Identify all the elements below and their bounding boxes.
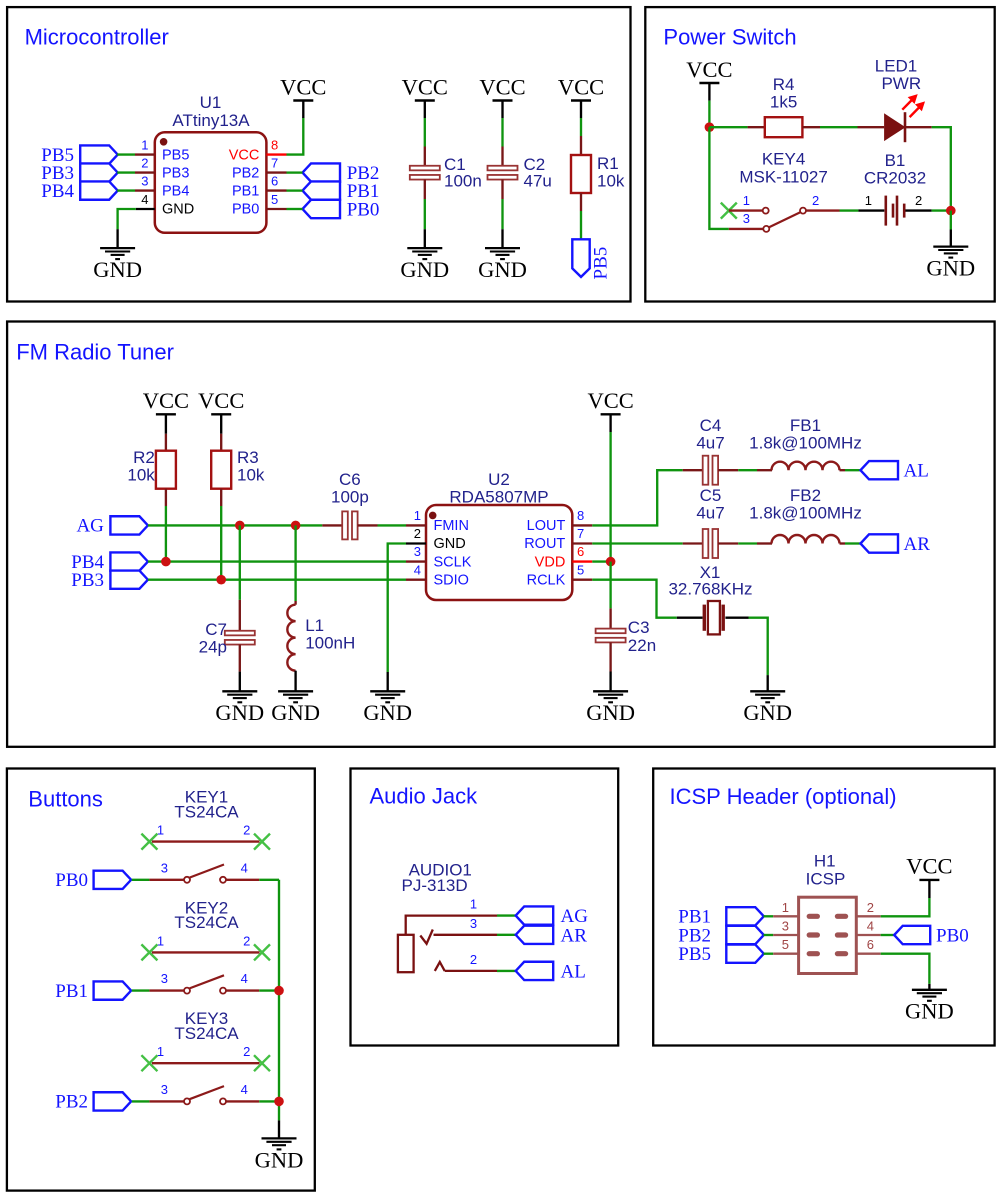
pins 1-2 KEY3 <box>152 1062 260 1064</box>
wire RCLK to crystal X1 <box>592 580 677 618</box>
wire junction to R4 <box>709 126 747 128</box>
ferrite bead FB1 1.8k@100MHz <box>757 469 772 471</box>
wire VCC to C1 <box>424 118 426 147</box>
svg-text:8: 8 <box>271 137 278 152</box>
pin 1 U2 FMIN <box>406 524 426 526</box>
svg-text:R1: R1 <box>597 154 619 173</box>
pin 6 U2 VDD <box>572 560 592 562</box>
svg-text:1.8k@100MHz: 1.8k@100MHz <box>749 434 862 453</box>
wire pin2 to AL port <box>497 970 516 972</box>
svg-text:1: 1 <box>743 193 750 208</box>
svg-text:LED1: LED1 <box>875 57 918 76</box>
wire pin7 to PB2 port <box>287 171 303 173</box>
svg-text:32.768KHz: 32.768KHz <box>668 579 752 598</box>
wire ROUT to C5 <box>592 542 682 544</box>
svg-text:GND: GND <box>162 202 194 218</box>
ground in Power Switch <box>950 230 952 247</box>
wire PB3 port to pin2 <box>117 171 135 173</box>
svg-text:SDIO: SDIO <box>434 572 469 588</box>
wire C6 to pin1 <box>378 524 407 526</box>
svg-text:AR: AR <box>904 534 931 555</box>
wire buttons right rail <box>278 880 280 1121</box>
pin 5 H1 <box>764 953 774 955</box>
svg-text:CR2032: CR2032 <box>864 169 926 188</box>
wire KEY3 pin4 to rail <box>259 1100 279 1102</box>
svg-text:100nH: 100nH <box>305 634 355 653</box>
svg-text:FB1: FB1 <box>790 416 821 435</box>
no-connect X KEY3 pin2 <box>254 1055 270 1071</box>
svg-text:PB4: PB4 <box>41 181 74 202</box>
port AG to tuner <box>516 906 554 924</box>
ferrite bead FB2 1.8k@100MHz <box>757 542 772 544</box>
pin 6 H1 to ground <box>857 953 881 955</box>
pin 7 U2 ROUT <box>572 542 592 544</box>
ground under C2 <box>501 229 503 248</box>
svg-text:SCLK: SCLK <box>434 554 472 570</box>
switch lever KEY1 <box>190 865 225 878</box>
svg-text:PJ-313D: PJ-313D <box>402 876 468 895</box>
svg-text:PB5: PB5 <box>678 944 711 965</box>
svg-text:1: 1 <box>157 933 164 948</box>
resistor R4 1k5 <box>748 126 765 128</box>
svg-text:2: 2 <box>414 526 421 541</box>
wire VDD pin to junction <box>592 560 610 562</box>
port PB2 <box>94 1092 132 1110</box>
wire VCC down to VDD junction <box>609 432 611 562</box>
section box Microcontroller <box>7 7 630 301</box>
pin 3 U1 PB4 <box>135 189 155 191</box>
node junction KEY3 pin4 <box>274 1097 284 1107</box>
svg-text:PB3: PB3 <box>71 570 104 591</box>
switch lever KEY2 <box>190 975 225 988</box>
wire LOUT up to C4 row <box>592 470 682 525</box>
pin 3 KEY4 <box>729 228 763 230</box>
pin 1 KEY4 <box>729 209 763 211</box>
svg-text:VCC: VCC <box>906 854 952 879</box>
no-connect X KEY2 pin2 <box>254 944 270 960</box>
wire PB2 port to KEY3 pin3 <box>132 1100 150 1102</box>
svg-text:6: 6 <box>577 544 584 559</box>
svg-text:3: 3 <box>414 544 421 559</box>
inductor L1 100nH <box>294 601 296 605</box>
ground under U1 <box>116 229 118 248</box>
svg-text:2: 2 <box>470 952 477 967</box>
pin 1 U1 PB5 <box>135 153 155 155</box>
svg-text:10k: 10k <box>127 466 155 485</box>
svg-text:5: 5 <box>577 562 584 577</box>
svg-text:GND: GND <box>905 999 954 1024</box>
svg-text:6: 6 <box>867 937 874 952</box>
svg-text:U2: U2 <box>488 470 510 489</box>
svg-text:4: 4 <box>241 860 248 875</box>
svg-text:C6: C6 <box>339 470 361 489</box>
pin 7 U1 PB2 <box>266 171 286 173</box>
pin 8 U1 VCC <box>266 153 286 155</box>
pin 4 KEY2 <box>220 988 226 994</box>
capacitor C5 4u7 <box>683 542 703 544</box>
svg-text:22n: 22n <box>628 636 656 655</box>
wire C2 to ground <box>501 199 503 229</box>
svg-text:3: 3 <box>161 1082 168 1097</box>
pin 2 U1 PB3 <box>135 171 155 173</box>
svg-text:47u: 47u <box>524 172 552 191</box>
svg-text:VCC: VCC <box>479 74 525 99</box>
wire KEY1 pin4 to rail <box>259 879 279 881</box>
svg-text:LOUT: LOUT <box>527 518 566 534</box>
wire R1 to PB5 port <box>580 211 582 239</box>
pin 4 KEY1 <box>220 877 226 883</box>
wire R3 to SDIO line <box>220 506 222 580</box>
svg-text:R2: R2 <box>133 448 155 467</box>
svg-text:U1: U1 <box>200 93 222 112</box>
svg-text:ATtiny13A: ATtiny13A <box>172 111 250 130</box>
svg-text:2: 2 <box>141 155 148 170</box>
pin 4 KEY3 <box>220 1098 226 1104</box>
svg-text:AL: AL <box>904 461 929 482</box>
op-amp U2 body RDA5807MP <box>426 505 572 600</box>
wire FB2 to AR port <box>845 542 861 544</box>
svg-text:2: 2 <box>243 823 250 838</box>
port PB5 below R1 <box>572 239 589 277</box>
ground right of X1 <box>767 675 769 691</box>
svg-text:MSK-11027: MSK-11027 <box>739 167 828 186</box>
svg-text:ICSP Header (optional): ICSP Header (optional) <box>670 784 897 809</box>
wire U1 pin8 to VCC <box>287 118 304 155</box>
svg-text:4: 4 <box>241 971 248 986</box>
svg-text:PB3: PB3 <box>162 165 189 181</box>
pin 4 U1 GND <box>136 208 155 210</box>
wire U1 pin4 to ground <box>118 209 136 229</box>
pin 4 H1 to PB0 <box>857 934 881 936</box>
svg-text:C3: C3 <box>628 618 650 637</box>
ground under buttons <box>278 1120 280 1138</box>
wire junction down to C3 <box>609 562 611 609</box>
LED LED1 PWR <box>858 126 885 128</box>
svg-text:100n: 100n <box>444 172 482 191</box>
pin 1 H1 <box>764 915 774 917</box>
svg-text:C7: C7 <box>205 620 227 639</box>
section box ICSP Header <box>653 769 994 1046</box>
svg-text:Microcontroller: Microcontroller <box>25 24 169 49</box>
no-connect X KEY3 pin1 <box>141 1055 157 1071</box>
svg-text:L1: L1 <box>305 616 324 635</box>
wire FB1 to AL port <box>845 469 861 471</box>
resistor R1 10k <box>580 136 582 155</box>
port AL audio left out <box>861 461 899 479</box>
svg-text:4: 4 <box>414 562 421 577</box>
power VCC at U1 pin8 <box>302 101 304 119</box>
port PB4 SCLK <box>110 552 147 570</box>
svg-text:PB0: PB0 <box>55 870 88 891</box>
wire PB0 port to KEY1 pin3 <box>132 879 150 881</box>
wire C1 to ground <box>424 199 426 229</box>
capacitor C3 22n <box>609 608 611 628</box>
capacitor C4 4u7 <box>683 469 703 471</box>
svg-text:AL: AL <box>561 962 586 983</box>
capacitor C6 100p <box>322 524 342 526</box>
wire PB4 port to pin3 <box>117 189 135 191</box>
wire C4 to FB1 <box>738 469 757 471</box>
svg-text:VCC: VCC <box>686 57 732 82</box>
svg-text:AG: AG <box>76 516 104 537</box>
section box FM Radio Tuner <box>7 322 995 747</box>
node junction KEY2 pin4 <box>274 986 284 996</box>
svg-text:TS24CA: TS24CA <box>174 1024 239 1043</box>
port PB5 at U1 pin1 <box>80 145 118 163</box>
svg-text:VCC: VCC <box>229 147 260 163</box>
node junction battery/LED/ground <box>946 206 956 216</box>
svg-text:3: 3 <box>161 860 168 875</box>
svg-text:4: 4 <box>241 1082 248 1097</box>
pin 3 AUDIO1 ring contact <box>420 930 433 944</box>
svg-text:VCC: VCC <box>558 74 604 99</box>
svg-text:1: 1 <box>414 508 421 523</box>
pin 2 AUDIO1 tip contact <box>435 962 445 971</box>
wire AG junction down to L1 <box>294 525 296 601</box>
svg-text:2: 2 <box>243 933 250 948</box>
svg-text:PB2: PB2 <box>55 1092 88 1113</box>
pin 3 KEY1 <box>149 879 184 881</box>
svg-text:FM Radio Tuner: FM Radio Tuner <box>16 339 174 364</box>
wire pin1 to AG port <box>497 914 516 916</box>
ground under L1 <box>294 671 296 692</box>
svg-text:2: 2 <box>812 193 819 208</box>
svg-text:Buttons: Buttons <box>28 786 103 811</box>
svg-text:PB5: PB5 <box>591 247 612 280</box>
svg-text:2: 2 <box>243 1044 250 1059</box>
wire PB3 line to pin4 <box>148 579 406 581</box>
wire pin6 to PB1 port <box>287 189 303 191</box>
pin 2 H1 to VCC <box>857 915 881 917</box>
section box Audio Jack <box>351 769 619 1046</box>
port PB0 at U1 pin5 <box>303 200 341 218</box>
wire VCC to R1 <box>580 118 582 136</box>
svg-text:2: 2 <box>867 900 874 915</box>
node junction R2/SCLK <box>161 557 171 567</box>
svg-text:PB0: PB0 <box>936 926 969 947</box>
node junction VCC/R4/switch <box>705 122 715 132</box>
capacitor C2 47u <box>501 147 503 166</box>
no-connect X on KEY4 pin1 <box>721 203 737 219</box>
pin 3 KEY3 <box>149 1100 184 1102</box>
switch lever KEY4 <box>769 212 801 227</box>
svg-text:R4: R4 <box>773 75 795 94</box>
pins 1-2 KEY1 <box>152 840 260 842</box>
wire PB1 port to KEY2 pin3 <box>132 989 150 991</box>
pin 3 H1 <box>764 934 774 936</box>
node junction VDD/C3 <box>606 557 616 567</box>
port PB4 at U1 pin3 <box>80 181 118 199</box>
svg-text:VCC: VCC <box>198 388 244 413</box>
svg-text:PB0: PB0 <box>232 202 259 218</box>
pin 5 U2 RCLK <box>572 579 592 581</box>
wire PB5 port to pin1 <box>117 153 135 155</box>
pin 4 U2 SDIO <box>406 579 426 581</box>
svg-text:RDA5807MP: RDA5807MP <box>449 487 548 506</box>
svg-text:H1: H1 <box>814 851 836 870</box>
svg-text:PB0: PB0 <box>347 199 380 220</box>
svg-text:PWR: PWR <box>881 74 921 93</box>
svg-text:KEY4: KEY4 <box>762 149 805 168</box>
section box Buttons <box>7 769 315 1191</box>
pin 6 U1 PB1 <box>266 189 286 191</box>
pin 3 U2 SCLK <box>406 560 426 562</box>
svg-text:1: 1 <box>865 193 872 208</box>
svg-text:4u7: 4u7 <box>696 434 724 453</box>
svg-text:3: 3 <box>141 173 148 188</box>
svg-text:PB5: PB5 <box>162 147 189 163</box>
port PB5 to H1 pin5 <box>726 945 764 963</box>
switch lever KEY3 <box>190 1086 225 1099</box>
svg-text:2: 2 <box>915 193 922 208</box>
node junction AG/L1 <box>291 521 301 531</box>
wire AG junction down to C7 <box>239 525 241 600</box>
svg-text:3: 3 <box>470 916 477 931</box>
svg-text:VDD: VDD <box>535 554 566 570</box>
wire C5 to FB2 <box>738 542 757 544</box>
wire battery to right rail <box>932 209 951 211</box>
svg-text:Audio Jack: Audio Jack <box>370 783 479 808</box>
svg-text:R3: R3 <box>237 448 259 467</box>
svg-text:3: 3 <box>743 211 750 226</box>
ground at H1 pin6 <box>928 984 930 990</box>
svg-text:5: 5 <box>782 937 789 952</box>
svg-text:1: 1 <box>157 823 164 838</box>
svg-text:4: 4 <box>867 919 874 934</box>
svg-text:PB1: PB1 <box>232 183 259 199</box>
svg-text:10k: 10k <box>597 172 625 191</box>
port PB3 SDIO <box>110 571 147 589</box>
svg-text:FMIN: FMIN <box>434 518 469 534</box>
node junction AG/C7 <box>235 521 245 531</box>
wire KEY2 pin4 to rail <box>259 989 279 991</box>
no-connect X KEY1 pin1 <box>141 834 157 850</box>
port PB0 at H1 pin4 <box>894 926 930 944</box>
svg-text:RCLK: RCLK <box>527 572 566 588</box>
svg-text:GND: GND <box>255 1147 304 1172</box>
svg-text:1.8k@100MHz: 1.8k@100MHz <box>749 504 862 523</box>
pin 5 U1 PB0 <box>266 208 286 210</box>
ground under C7 <box>239 672 241 692</box>
svg-text:1: 1 <box>157 1044 164 1059</box>
LED light arrows <box>902 95 924 117</box>
svg-text:8: 8 <box>577 508 584 523</box>
svg-text:1k5: 1k5 <box>770 93 797 112</box>
svg-text:7: 7 <box>577 526 584 541</box>
resistor R3 10k <box>220 434 222 451</box>
section box Power Switch <box>645 7 994 301</box>
pin 2 U2 GND <box>406 542 426 544</box>
svg-text:PB4: PB4 <box>162 183 189 199</box>
svg-text:TS24CA: TS24CA <box>174 802 239 821</box>
svg-text:4: 4 <box>141 192 148 207</box>
wire U2 pin2 to ground <box>388 544 406 673</box>
svg-text:B1: B1 <box>885 151 906 170</box>
op-amp U1 body ATtiny13A <box>155 132 267 233</box>
ground under U2 GND pin <box>387 672 389 691</box>
ground under C1 <box>424 229 426 248</box>
svg-text:AG: AG <box>561 906 589 927</box>
svg-text:GND: GND <box>93 257 142 282</box>
pin 8 U2 LOUT <box>572 524 592 526</box>
svg-text:5: 5 <box>271 192 278 207</box>
wire X1 to ground <box>749 618 768 675</box>
svg-text:GND: GND <box>926 256 975 281</box>
svg-text:VCC: VCC <box>402 74 448 99</box>
svg-text:24p: 24p <box>199 638 227 657</box>
svg-text:GND: GND <box>434 536 466 552</box>
wire R2 to SCLK line <box>165 506 167 562</box>
svg-text:GND: GND <box>271 700 320 725</box>
power VCC at H1 pin2 <box>928 880 930 898</box>
wire VCC down to junction <box>708 101 710 128</box>
port AG FM input <box>110 516 147 534</box>
crystal X1 32.768KHz <box>677 617 703 619</box>
wire VCC to C2 <box>501 118 503 147</box>
svg-text:GND: GND <box>743 700 792 725</box>
svg-text:GND: GND <box>215 700 264 725</box>
svg-text:100p: 100p <box>331 487 369 506</box>
port PB2 to H1 pin3 <box>726 926 764 944</box>
wire PB4 line to pin3 <box>148 560 406 562</box>
port AL to tuner <box>516 962 554 980</box>
svg-text:PB1: PB1 <box>55 981 88 1002</box>
svg-text:PB2: PB2 <box>232 165 259 181</box>
svg-text:VCC: VCC <box>587 388 633 413</box>
svg-text:TS24CA: TS24CA <box>174 913 239 932</box>
port AR to tuner <box>516 926 554 944</box>
wire pin5 to PB0 port <box>287 208 303 210</box>
svg-text:1: 1 <box>782 900 789 915</box>
wire LED1 to right rail <box>932 127 951 210</box>
wire junction down to switch pin3 <box>709 127 728 229</box>
port PB1 to H1 pin1 <box>726 907 764 925</box>
svg-text:3: 3 <box>161 971 168 986</box>
capacitor C7 24p <box>239 600 241 630</box>
svg-text:4u7: 4u7 <box>696 504 724 523</box>
svg-text:GND: GND <box>363 700 412 725</box>
svg-text:7: 7 <box>271 155 278 170</box>
wire R4 to LED1 <box>820 126 858 128</box>
svg-text:1: 1 <box>141 137 148 152</box>
capacitor C1 100n <box>424 147 426 166</box>
svg-text:1: 1 <box>470 897 477 912</box>
wire KEY4 pin2 to battery <box>840 209 859 211</box>
svg-text:6: 6 <box>271 173 278 188</box>
port PB2 at U1 pin7 <box>303 163 341 181</box>
pins 1-2 KEY2 <box>152 951 260 953</box>
connector H1 ICSP body <box>799 897 857 973</box>
wire pin3 to AR port <box>497 934 516 936</box>
svg-text:C4: C4 <box>700 416 722 435</box>
port AR audio right out <box>861 534 899 552</box>
svg-text:ROUT: ROUT <box>524 536 565 552</box>
no-connect X KEY2 pin1 <box>141 944 157 960</box>
port PB3 at U1 pin2 <box>80 163 118 181</box>
pin 1 AUDIO1 sleeve <box>406 916 497 935</box>
svg-text:GND: GND <box>478 257 527 282</box>
svg-text:GND: GND <box>586 700 635 725</box>
ground under C3 <box>609 672 611 692</box>
port PB0 <box>94 871 132 889</box>
svg-text:10k: 10k <box>237 466 265 485</box>
node junction R3/SDIO <box>216 575 226 585</box>
svg-text:C5: C5 <box>700 486 722 505</box>
svg-text:Power Switch: Power Switch <box>663 24 796 49</box>
svg-text:AR: AR <box>561 925 588 946</box>
no-connect X KEY1 pin2 <box>254 834 270 850</box>
wire junction down to ground <box>950 211 952 230</box>
